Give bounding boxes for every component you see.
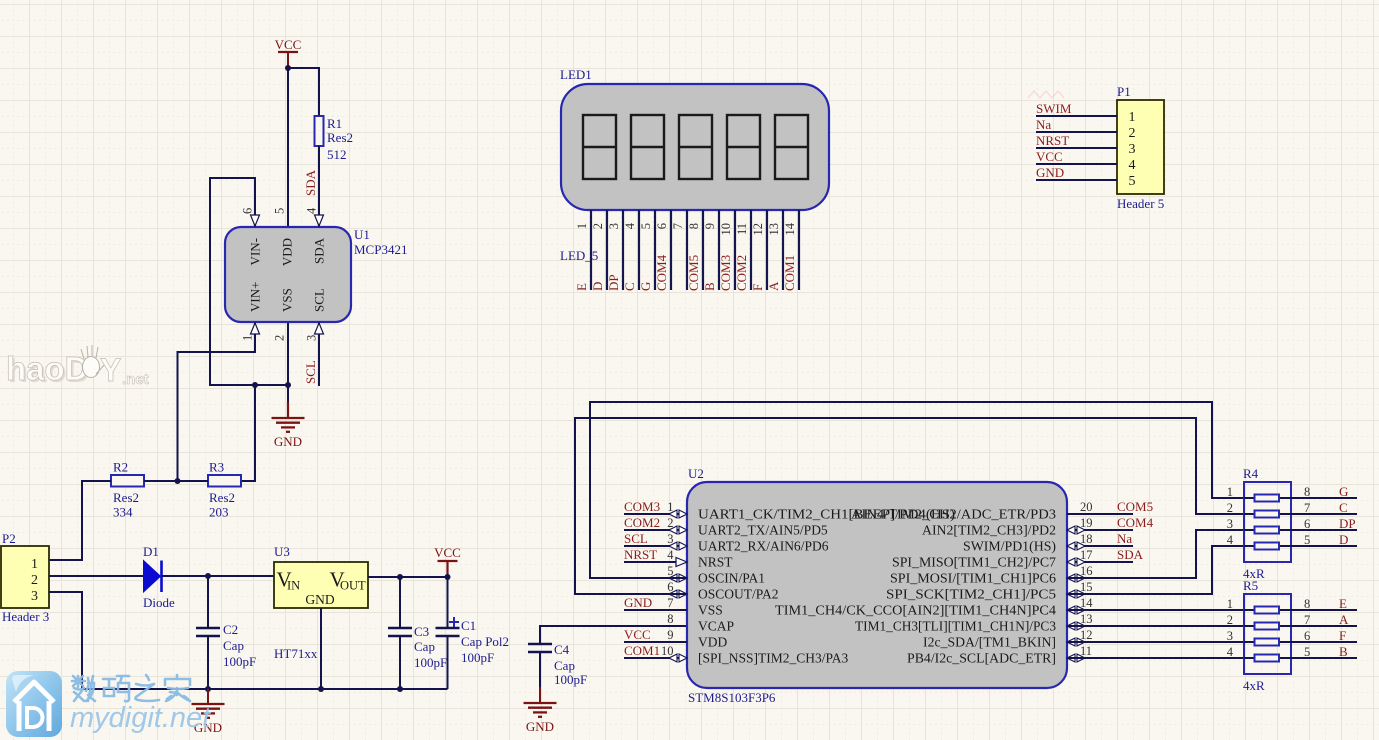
svg-text:10: 10 xyxy=(661,644,674,658)
node D1/C2 junction xyxy=(205,573,211,579)
svg-text:U1: U1 xyxy=(354,227,370,242)
LED1 pin 8 wire xyxy=(702,210,704,290)
svg-text:SDA: SDA xyxy=(312,237,327,264)
svg-text:C4: C4 xyxy=(554,642,570,657)
U2 right pin 17 I/O arrows xyxy=(1077,558,1085,566)
svg-text:1: 1 xyxy=(1227,597,1233,611)
watermark haoDIY.net xyxy=(6,345,149,389)
LED1 pin 13 wire xyxy=(782,210,784,290)
wire P1 pin 4 xyxy=(1036,163,1117,165)
wire U1 pin1 VIN+ route to R2/R3 divider junction xyxy=(178,322,256,481)
svg-text:NRST: NRST xyxy=(1036,133,1069,148)
LED1 digit cell 2 xyxy=(631,115,664,179)
svg-text:TIM1_CH3[TLI][TIM1_CH1N]/PC3: TIM1_CH3[TLI][TIM1_CH1N]/PC3 xyxy=(855,619,1056,634)
capacitor C4 xyxy=(528,626,687,687)
svg-text:Res2: Res2 xyxy=(113,490,139,505)
wire P1 pin 5 xyxy=(1036,179,1117,181)
svg-text:Cap: Cap xyxy=(554,658,575,673)
svg-text:1: 1 xyxy=(575,223,589,229)
svg-text:UART2_TX/AIN5/PD5: UART2_TX/AIN5/PD5 xyxy=(698,523,828,538)
svg-text:VCC: VCC xyxy=(434,545,461,560)
resistor R2 xyxy=(111,460,144,520)
wire U2 pin 1 stub (COM3) xyxy=(624,513,687,515)
wire U2 pin 20 stub (COM5) xyxy=(1067,513,1133,515)
svg-text:2: 2 xyxy=(1129,126,1136,141)
svg-text:9: 9 xyxy=(703,223,717,229)
wire U2 pin 9 stub (VCC) xyxy=(624,641,687,643)
svg-text:G: G xyxy=(638,282,653,291)
svg-text:6: 6 xyxy=(241,208,255,214)
svg-text:12: 12 xyxy=(751,223,765,236)
R5 element 2 xyxy=(1244,623,1291,630)
svg-text:VDD: VDD xyxy=(698,635,727,650)
svg-text:8: 8 xyxy=(687,223,701,229)
wire U3 VOUT to VCC node xyxy=(368,576,448,578)
U2 right pin 12 I/O arrows xyxy=(1077,638,1085,646)
watermark mydigit logo xyxy=(6,671,62,737)
svg-text:COM1: COM1 xyxy=(782,255,797,291)
svg-text:VCC: VCC xyxy=(624,627,651,642)
svg-text:R4: R4 xyxy=(1243,466,1259,481)
wire P1 pin 3 xyxy=(1036,147,1117,149)
svg-text:Y: Y xyxy=(100,352,121,388)
wire U2 pin14 to R5 pin1 xyxy=(1067,609,1244,611)
wire R5 pin 5 to net B xyxy=(1291,657,1357,659)
ground GND (input rail) xyxy=(192,689,225,735)
svg-text:7: 7 xyxy=(1304,613,1310,627)
svg-text:SPI_SCK[TIM2_CH1]/PC5: SPI_SCK[TIM2_CH1]/PC5 xyxy=(886,587,1056,602)
LED1 pin 14 wire xyxy=(798,210,800,290)
ground GND (U1 VSS) xyxy=(272,402,305,449)
svg-text:8: 8 xyxy=(667,612,673,626)
LED1 digit cell 1 xyxy=(583,115,616,179)
svg-text:512: 512 xyxy=(327,147,347,162)
svg-text:VIN-: VIN- xyxy=(248,238,263,265)
wire U2 pin13 to R5 pin2 xyxy=(1067,625,1244,627)
svg-text:.net: .net xyxy=(122,371,149,388)
svg-text:R5: R5 xyxy=(1243,578,1258,593)
svg-text:GND: GND xyxy=(624,595,652,610)
svg-text:10: 10 xyxy=(719,223,733,236)
U2 right pin 16 I/O arrows xyxy=(1077,574,1085,582)
svg-text:F: F xyxy=(750,284,765,291)
svg-text:C3: C3 xyxy=(414,624,429,639)
connector P1 Header 5 body xyxy=(1117,84,1164,211)
svg-text:6: 6 xyxy=(1304,517,1310,531)
svg-text:2: 2 xyxy=(591,223,605,229)
svg-text:C: C xyxy=(1339,500,1348,515)
LED1 digit cell 3 xyxy=(679,115,712,179)
node VSS-net junction B xyxy=(285,382,291,388)
svg-text:C: C xyxy=(622,282,637,291)
node C3 ground junction xyxy=(397,686,403,692)
capacitor C3 xyxy=(388,577,447,689)
svg-text:5: 5 xyxy=(1304,645,1310,659)
svg-text:C1: C1 xyxy=(461,618,476,633)
svg-text:4: 4 xyxy=(1227,645,1234,659)
svg-text:C2: C2 xyxy=(223,622,238,637)
U1 pin 1 input arrow xyxy=(251,323,260,334)
svg-text:SCL: SCL xyxy=(624,531,648,546)
op-amp U1 MCP3421 body xyxy=(225,227,351,322)
watermark pink squiggle xyxy=(1028,91,1064,98)
node C3 top junction xyxy=(397,574,403,580)
svg-text:VDD: VDD xyxy=(280,238,295,266)
svg-text:Cap Pol2: Cap Pol2 xyxy=(461,634,509,649)
svg-text:TIM1_CH4/CK_CCO[AIN2][TIM1_CH4: TIM1_CH4/CK_CCO[AIN2][TIM1_CH4N]PC4 xyxy=(775,603,1056,618)
U2 right pin 11 I/O arrows xyxy=(1077,654,1085,662)
wire R5 pin 6 to net F xyxy=(1291,641,1357,643)
svg-text:2: 2 xyxy=(273,335,287,341)
svg-text:2: 2 xyxy=(1227,501,1233,515)
svg-text:A: A xyxy=(766,281,781,291)
svg-text:9: 9 xyxy=(667,628,673,642)
svg-text:100pF: 100pF xyxy=(223,654,256,669)
svg-text:VCC: VCC xyxy=(275,37,302,52)
wire U2 pin 2 stub (COM2) xyxy=(624,529,687,531)
LED1 pin 9 wire xyxy=(718,210,720,290)
ground GND (C4) xyxy=(524,687,557,734)
svg-text:B: B xyxy=(702,282,717,291)
svg-text:AIN4/TIM2_CH2/ADC_ETR/PD3: AIN4/TIM2_CH2/ADC_ETR/PD3 xyxy=(851,507,1056,522)
node divider junction xyxy=(175,478,181,484)
svg-text:DP: DP xyxy=(1339,516,1356,531)
svg-text:MCP3421: MCP3421 xyxy=(354,242,407,257)
wire R4 pin 7 to net C xyxy=(1291,513,1357,515)
svg-text:PB4/I2c_SCL[ADC_ETR]: PB4/I2c_SCL[ADC_ETR] xyxy=(907,651,1056,666)
wire P1 pin 2 xyxy=(1036,131,1117,133)
wire U2 pin5 OSCIN to R4 pin1 (top route) xyxy=(590,402,1244,578)
svg-text:COM1: COM1 xyxy=(624,643,660,658)
wire P2 pin2 to D1 anode xyxy=(49,575,143,577)
svg-text:6: 6 xyxy=(655,223,669,229)
svg-text:IN: IN xyxy=(287,579,300,593)
svg-text:SWIM: SWIM xyxy=(1036,101,1072,116)
svg-text:6: 6 xyxy=(1304,629,1310,643)
node VCC junction xyxy=(285,65,291,71)
wire P2 pin3 to ground rail xyxy=(49,592,448,689)
svg-text:SWIM/PD1(HS): SWIM/PD1(HS) xyxy=(963,539,1056,554)
svg-text:E: E xyxy=(574,283,589,291)
svg-text:COM2: COM2 xyxy=(624,515,660,530)
svg-text:2: 2 xyxy=(31,573,38,588)
capacitor C2 xyxy=(196,576,256,689)
wire R3 right terminal up to VSS net xyxy=(241,385,255,481)
wire U2 pin15 to R4 pin4 xyxy=(1067,546,1244,594)
regulator U3 HT71xx body xyxy=(274,544,368,661)
U2 pin 4 input arrow xyxy=(676,558,687,567)
wire U2 pin11 to R5 pin4 xyxy=(1067,657,1244,659)
U2 left pin 3 I/O arrows xyxy=(669,542,677,550)
U2 right pin 14 I/O arrows xyxy=(1077,606,1085,614)
node U3 ground junction xyxy=(318,686,324,692)
svg-text:SPI_MOSI/[TIM1_CH1]PC6: SPI_MOSI/[TIM1_CH1]PC6 xyxy=(890,571,1056,586)
svg-text:GND: GND xyxy=(305,592,334,607)
svg-text:7: 7 xyxy=(1304,501,1310,515)
svg-text:3: 3 xyxy=(1227,629,1233,643)
svg-text:P1: P1 xyxy=(1117,84,1131,99)
capacitor C1 polarized xyxy=(436,577,510,689)
resistor R3 xyxy=(208,460,241,520)
svg-text:NRST: NRST xyxy=(698,555,733,570)
wire U2 pin 17 stub (SDA) xyxy=(1067,561,1133,563)
svg-text:Res2: Res2 xyxy=(209,490,235,505)
U2 left pin 1 I/O arrows xyxy=(669,510,677,518)
svg-text:Na: Na xyxy=(1117,531,1132,546)
svg-text:COM4: COM4 xyxy=(654,254,669,291)
LED1 pin 7 wire xyxy=(686,210,688,290)
svg-text:OSCIN/PA1: OSCIN/PA1 xyxy=(698,571,765,586)
svg-text:Diode: Diode xyxy=(143,595,175,610)
power VCC (top, net to U1 VDD and R1) xyxy=(275,37,302,68)
svg-text:5: 5 xyxy=(639,223,653,229)
svg-text:13: 13 xyxy=(767,223,781,236)
svg-text:SPI_MISO[TIM1_CH2]/PC7: SPI_MISO[TIM1_CH2]/PC7 xyxy=(892,555,1056,570)
wire U2 pin 19 stub (COM4) xyxy=(1067,529,1133,531)
U2 left pin 10 I/O arrows xyxy=(669,654,677,662)
svg-text:R3: R3 xyxy=(209,460,224,475)
svg-text:UART2_RX/AIN6/PD6: UART2_RX/AIN6/PD6 xyxy=(698,539,829,554)
svg-text:4: 4 xyxy=(305,207,319,214)
svg-text:COM3: COM3 xyxy=(718,255,733,291)
svg-text:F: F xyxy=(1339,628,1346,643)
svg-text:OSCOUT/PA2: OSCOUT/PA2 xyxy=(698,587,779,602)
svg-text:Header 3: Header 3 xyxy=(2,609,49,624)
svg-text:LED1: LED1 xyxy=(560,67,592,82)
svg-text:4xR: 4xR xyxy=(1243,678,1265,693)
R4 element 1 xyxy=(1244,495,1291,502)
LED1 pin 2 wire xyxy=(606,210,608,290)
U2 left pin 2 I/O arrows xyxy=(669,526,677,534)
svg-text:100pF: 100pF xyxy=(414,655,447,670)
svg-text:2: 2 xyxy=(1227,613,1233,627)
svg-text:5: 5 xyxy=(1304,533,1310,547)
R5 element 3 xyxy=(1244,639,1291,646)
svg-text:mydigit.net: mydigit.net xyxy=(70,702,212,734)
svg-text:3: 3 xyxy=(31,589,38,604)
svg-text:G: G xyxy=(1339,484,1348,499)
wire P1 pin 1 xyxy=(1036,115,1117,117)
svg-text:Cap: Cap xyxy=(414,639,435,654)
wire P2 pin1 to R2 left xyxy=(49,481,111,560)
svg-text:DP: DP xyxy=(606,274,621,291)
R4 element 4 xyxy=(1244,543,1291,550)
R5 element 1 xyxy=(1244,607,1291,614)
svg-text:20: 20 xyxy=(1080,500,1093,514)
svg-text:HT71xx: HT71xx xyxy=(274,646,318,661)
wire U2 pin 7 stub (GND) xyxy=(624,609,687,611)
R4 element 3 xyxy=(1244,527,1291,534)
watermark chinese text shu-ma-zhi-jia xyxy=(72,675,190,701)
svg-text:3: 3 xyxy=(607,223,621,229)
resistor network R5 body xyxy=(1243,578,1291,693)
svg-text:14: 14 xyxy=(783,222,797,235)
LED1 digit cell 5 xyxy=(775,115,808,179)
U2 right pin 19 I/O arrows xyxy=(1077,526,1085,534)
svg-text:4: 4 xyxy=(1129,158,1136,173)
wire U1 pin2 VSS down to ground xyxy=(287,322,289,403)
svg-text:5: 5 xyxy=(1129,174,1136,189)
LED1 pin 3 wire xyxy=(622,210,624,290)
wire R5 pin 7 to net A xyxy=(1291,625,1357,627)
wire R4 pin 5 to net D xyxy=(1291,545,1357,547)
svg-text:1: 1 xyxy=(1227,485,1233,499)
wire U1 pin3 SCL stub xyxy=(318,322,320,386)
svg-text:OUT: OUT xyxy=(340,579,366,593)
svg-text:haoD: haoD xyxy=(6,350,89,387)
LED1 pin 4 wire xyxy=(638,210,640,290)
svg-text:VIN+: VIN+ xyxy=(248,282,263,312)
svg-text:A: A xyxy=(1339,612,1349,627)
U1 pin 3 input arrow xyxy=(315,323,324,334)
svg-text:1: 1 xyxy=(31,557,38,572)
svg-text:VCAP: VCAP xyxy=(698,619,734,634)
LED1 pin 11 wire xyxy=(750,210,752,290)
svg-text:AIN2[TIM2_CH3]/PD2: AIN2[TIM2_CH3]/PD2 xyxy=(922,523,1056,538)
svg-text:100pF: 100pF xyxy=(461,650,494,665)
svg-text:1: 1 xyxy=(1129,110,1136,125)
svg-text:4: 4 xyxy=(667,548,674,562)
LED1 pin 6 wire xyxy=(670,210,672,290)
svg-text:203: 203 xyxy=(209,505,229,520)
svg-text:R2: R2 xyxy=(113,460,128,475)
wire VCC to U1 pin5 VDD xyxy=(287,68,289,227)
display LED1 body xyxy=(561,84,829,210)
wire R5 pin 8 to net E xyxy=(1291,609,1357,611)
LED1 pin 5 wire xyxy=(654,210,656,290)
svg-text:E: E xyxy=(1339,596,1347,611)
svg-text:SCL: SCL xyxy=(312,288,327,312)
svg-text:100pF: 100pF xyxy=(554,672,587,687)
wire U2 pin12 to R5 pin3 xyxy=(1067,641,1244,643)
svg-text:D: D xyxy=(1339,532,1348,547)
U2 right pin 13 I/O arrows xyxy=(1077,622,1085,630)
svg-text:4: 4 xyxy=(1227,533,1234,547)
svg-text:Header 5: Header 5 xyxy=(1117,196,1164,211)
svg-text:D: D xyxy=(590,282,605,291)
svg-text:VCC: VCC xyxy=(1036,149,1063,164)
U1 pin 6 input arrow xyxy=(251,215,260,226)
wire D1 cathode to U3 VIN xyxy=(162,575,274,577)
wire U2 pin 3 stub (SCL) xyxy=(624,545,687,547)
svg-text:STM8S103F3P6: STM8S103F3P6 xyxy=(688,690,776,705)
svg-text:NRST: NRST xyxy=(624,547,657,562)
LED1 pin 1 wire xyxy=(590,210,592,290)
svg-text:Na: Na xyxy=(1036,117,1051,132)
svg-text:GND: GND xyxy=(1036,165,1064,180)
wire U3 GND pin to ground rail xyxy=(320,608,322,689)
svg-text:D1: D1 xyxy=(143,544,159,559)
U2 left pin 6 I/O arrows xyxy=(669,590,677,598)
wire U2 pin 10 stub (COM1) xyxy=(624,657,687,659)
connector P2 Header 3 body xyxy=(1,531,49,624)
svg-text:8: 8 xyxy=(1304,485,1310,499)
svg-text:GND: GND xyxy=(526,719,554,734)
svg-text:LED_5: LED_5 xyxy=(560,248,598,263)
wire R4 pin 8 to net G xyxy=(1291,497,1357,499)
svg-text:11: 11 xyxy=(735,223,749,235)
svg-text:COM2: COM2 xyxy=(734,255,749,291)
svg-text:VSS: VSS xyxy=(698,603,723,618)
wire U1 pin6 VIN- route to VSS net xyxy=(210,178,288,385)
U2 left pin 5 I/O arrows xyxy=(669,574,677,582)
diode D1 xyxy=(143,544,175,610)
svg-text:B: B xyxy=(1339,644,1348,659)
svg-text:3: 3 xyxy=(1129,142,1136,157)
svg-text:5: 5 xyxy=(273,208,287,214)
wire VCC branch to R1 top xyxy=(288,68,319,116)
svg-text:3: 3 xyxy=(1227,517,1233,531)
svg-text:COM3: COM3 xyxy=(624,499,660,514)
R4 element 2 xyxy=(1244,511,1291,518)
resistor network R4 body xyxy=(1243,466,1291,581)
svg-text:COM5: COM5 xyxy=(686,255,701,291)
svg-text:7: 7 xyxy=(671,223,685,229)
node VCC output junction xyxy=(445,574,451,580)
svg-text:SCL: SCL xyxy=(303,360,318,384)
svg-text:U3: U3 xyxy=(274,544,290,559)
svg-text:GND: GND xyxy=(274,434,302,449)
microcontroller U2 STM8S103F3P6 body xyxy=(687,482,1067,688)
U2 right pin 15 I/O arrows xyxy=(1077,590,1085,598)
svg-text:7: 7 xyxy=(667,596,673,610)
wire R4 pin 6 to net DP xyxy=(1291,529,1357,531)
svg-text:SDA: SDA xyxy=(1117,547,1144,562)
wire R2 right to R3 left xyxy=(144,480,208,482)
svg-text:3: 3 xyxy=(305,335,319,341)
wire U2 pin 4 stub (NRST) xyxy=(624,561,687,563)
node VSS-net junction A xyxy=(252,382,258,388)
svg-text:VSS: VSS xyxy=(280,288,295,312)
power VCC (regulator output) xyxy=(434,545,461,577)
wire U2 pin6 OSCOUT to R4 pin2 (top route) xyxy=(575,418,1244,594)
U2 right pin 18 I/O arrows xyxy=(1077,542,1085,550)
U1 pin 4 input arrow xyxy=(315,215,324,226)
svg-text:Res2: Res2 xyxy=(327,130,353,145)
svg-text:SDA: SDA xyxy=(303,169,318,196)
wire R1 bottom to U1 pin4 SDA xyxy=(318,146,320,227)
svg-text:R1: R1 xyxy=(327,116,342,131)
wire U2 pin 18 stub (Na) xyxy=(1067,545,1133,547)
svg-text:Cap: Cap xyxy=(223,638,244,653)
svg-text:1: 1 xyxy=(241,335,255,341)
LED1 pin 12 wire xyxy=(766,210,768,290)
wire U2 pin16 to R4 pin3 xyxy=(1067,530,1244,578)
resistor R1 xyxy=(315,116,354,162)
R5 element 4 xyxy=(1244,655,1291,662)
svg-text:4: 4 xyxy=(623,222,637,229)
svg-text:COM5: COM5 xyxy=(1117,499,1153,514)
svg-text:U2: U2 xyxy=(688,466,704,481)
svg-text:[SPI_NSS]TIM2_CH3/PA3: [SPI_NSS]TIM2_CH3/PA3 xyxy=(698,651,849,666)
LED1 pin 10 wire xyxy=(734,210,736,290)
svg-text:8: 8 xyxy=(1304,597,1310,611)
svg-text:334: 334 xyxy=(113,505,133,520)
LED1 digit cell 4 xyxy=(727,115,760,179)
node C2 ground junction xyxy=(205,686,211,692)
svg-text:COM4: COM4 xyxy=(1117,515,1154,530)
svg-text:P2: P2 xyxy=(2,531,16,546)
svg-text:I2c_SDA/[TM1_BKIN]: I2c_SDA/[TM1_BKIN] xyxy=(923,635,1056,650)
